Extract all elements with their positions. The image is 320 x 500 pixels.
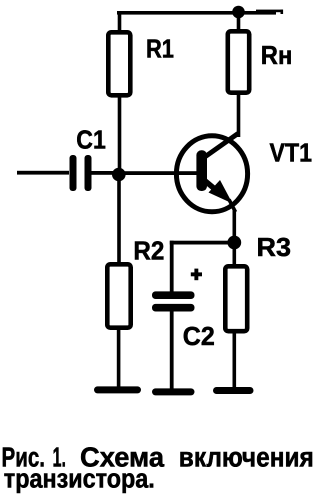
svg-text:R3: R3 — [257, 232, 292, 262]
svg-text:транзистора.: транзистора. — [4, 466, 155, 494]
svg-text:R2: R2 — [133, 236, 164, 266]
svg-text:C2: C2 — [183, 321, 215, 351]
svg-text:R1: R1 — [146, 34, 174, 64]
svg-text:C1: C1 — [76, 124, 106, 154]
svg-text:включения: включения — [179, 442, 314, 473]
svg-text:VT1: VT1 — [270, 138, 313, 168]
svg-text:Rн: Rн — [261, 40, 293, 70]
